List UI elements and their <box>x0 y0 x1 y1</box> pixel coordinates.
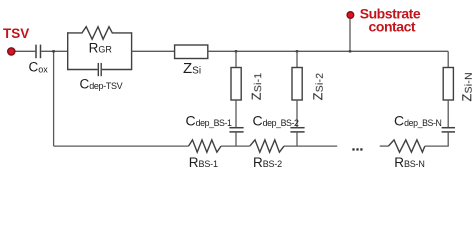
wire ZSi-N to Cdep_BS-N <box>447 100 449 128</box>
wire RBS-2 to rail end before gap <box>284 145 337 147</box>
node ellipsis (continuation dots) <box>352 148 362 150</box>
resistor RBS-2 (zigzag) <box>250 140 284 152</box>
wire RC loop to ZSi box <box>132 50 175 52</box>
wire ZSi-1 to Cdep_BS-1 <box>235 100 237 128</box>
impedance ZSi-1 (box) <box>231 68 241 101</box>
wire RC loop left edge <box>67 32 69 70</box>
resistor RBS-N (zigzag) <box>388 140 424 152</box>
impedance ZSi-N (box) <box>443 68 453 101</box>
impedance ZSi (box) <box>175 45 208 59</box>
wire Cdep_BS-2 to bottom rail <box>296 132 298 146</box>
capacitor Cdep_BS-1 <box>229 128 243 132</box>
wire branch 1 bus to ZSi-1 <box>235 51 237 67</box>
svg-text:contact: contact <box>369 19 416 35</box>
wire RC loop right edge <box>131 32 133 70</box>
impedance ZSi-2 (box) <box>292 68 302 101</box>
wire junction drop to bottom rail <box>53 51 55 146</box>
wire RBS-1 to branch 1 <box>221 145 250 147</box>
wire Cdep_BS-1 to bottom rail <box>235 132 237 146</box>
wire RBS-N to branch N bottom <box>425 145 449 147</box>
wire rail resume after gap <box>380 145 389 147</box>
node Substrate contact terminal (red dot) <box>347 12 354 19</box>
resistor RGR (zigzag, top of parallel RC loop) <box>68 27 132 40</box>
node junction marks <box>52 50 351 52</box>
wire Cox to RC box left edge <box>41 50 68 52</box>
wire ZSi-2 to Cdep_BS-2 <box>296 100 298 128</box>
wire Cdep_BS-N to bottom rail <box>447 132 449 146</box>
wire TSV dot to Cox <box>16 50 36 52</box>
wire branch 2 bus to ZSi-2 <box>296 51 298 67</box>
wire branch N elbow from bus <box>447 51 449 67</box>
wire bottom rail left segment <box>54 145 189 147</box>
node TSV terminal (red dot) <box>8 48 15 55</box>
capacitor Cdep_BS-2 <box>290 128 304 132</box>
wire substrate dot to top bus <box>349 19 351 52</box>
capacitor Cdep_BS-N <box>442 128 455 132</box>
capacitor Cox <box>36 45 41 59</box>
svg-text:TSV: TSV <box>3 26 29 41</box>
resistor RBS-1 (zigzag) <box>189 140 222 152</box>
wire top bus from ZSi to right elbow <box>208 50 448 52</box>
capacitor Cdep-TSV (bottom of parallel RC loop) <box>68 63 132 76</box>
